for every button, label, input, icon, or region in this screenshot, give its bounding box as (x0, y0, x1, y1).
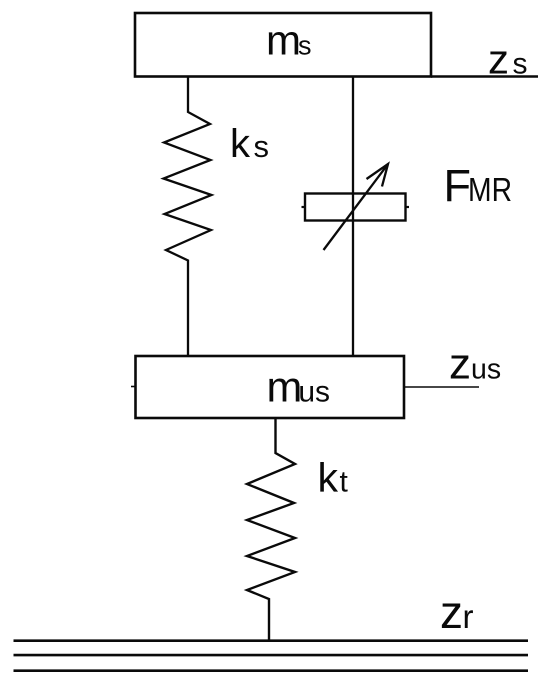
ground road line 3 (14, 669, 529, 672)
svg-text:zs: zs (488, 36, 528, 83)
variable arrow (324, 164, 389, 250)
svg-text:ks: ks (230, 122, 269, 166)
MR damper body (305, 194, 406, 221)
node line zus (404, 386, 479, 388)
spring ks (164, 77, 212, 355)
svg-text:zr: zr (440, 586, 474, 638)
damper right nub (406, 206, 410, 208)
sprung mass box ms (135, 13, 431, 77)
svg-text:mus: mus (267, 364, 331, 412)
mus left nub (131, 386, 136, 388)
ground road line 1 (14, 639, 529, 642)
svg-text:zus: zus (449, 340, 501, 389)
damper left nub (302, 206, 306, 208)
svg-text:ms: ms (266, 17, 312, 64)
node line zs (431, 75, 538, 78)
unsprung mass box mus (136, 356, 405, 418)
spring kt (247, 418, 295, 640)
ground road line 2 (14, 654, 529, 657)
svg-text:kt: kt (318, 455, 349, 501)
svg-text:FMR: FMR (444, 160, 513, 211)
wire damper rod (352, 77, 354, 355)
